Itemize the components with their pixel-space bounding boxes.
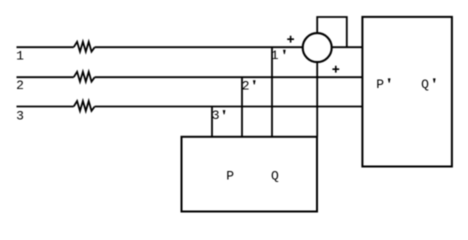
svg-text:2: 2 [16,78,24,93]
wire summing junction bottom drop to box P Q corner [316,62,318,137]
svg-text:Q: Q [421,77,429,92]
wire input 3 left segment [17,106,74,108]
node 1' label [271,48,286,63]
resistor R2 [74,72,95,82]
plus sign at summing junction input [287,36,294,43]
svg-text:Q: Q [271,169,279,184]
box P' Q' [362,17,452,167]
label Q' [421,77,436,92]
svg-text:P: P [226,169,234,184]
svg-text:3: 3 [212,108,220,123]
wire drop from node 2' to box P Q [241,77,243,137]
wire input 1 right segment to summing junction [95,46,303,48]
wire input 3 right segment to box P'Q' [95,106,363,108]
resistor R1 [74,42,95,52]
resistor R3 [74,101,95,111]
box P Q [182,137,318,212]
feedback wire loop over summing junction [317,17,347,47]
wire drop from node 3' to box P Q [211,107,213,137]
plus sign at lower branch [332,66,339,73]
node 3' label [212,108,226,123]
label P' [376,77,390,92]
svg-text:P: P [376,77,384,92]
wire input 2 left segment [17,76,74,78]
svg-text:2: 2 [242,79,250,94]
wire summing junction output to box P'Q' [331,46,362,48]
wire drop from node 1' to box P Q [271,47,273,137]
svg-text:1: 1 [16,48,24,63]
node 2' label [242,79,256,94]
wire input 2 right segment to box P'Q' [95,76,363,78]
wire input 1 left segment [17,46,74,48]
summing junction circle [303,33,332,62]
svg-text:3: 3 [16,108,24,123]
